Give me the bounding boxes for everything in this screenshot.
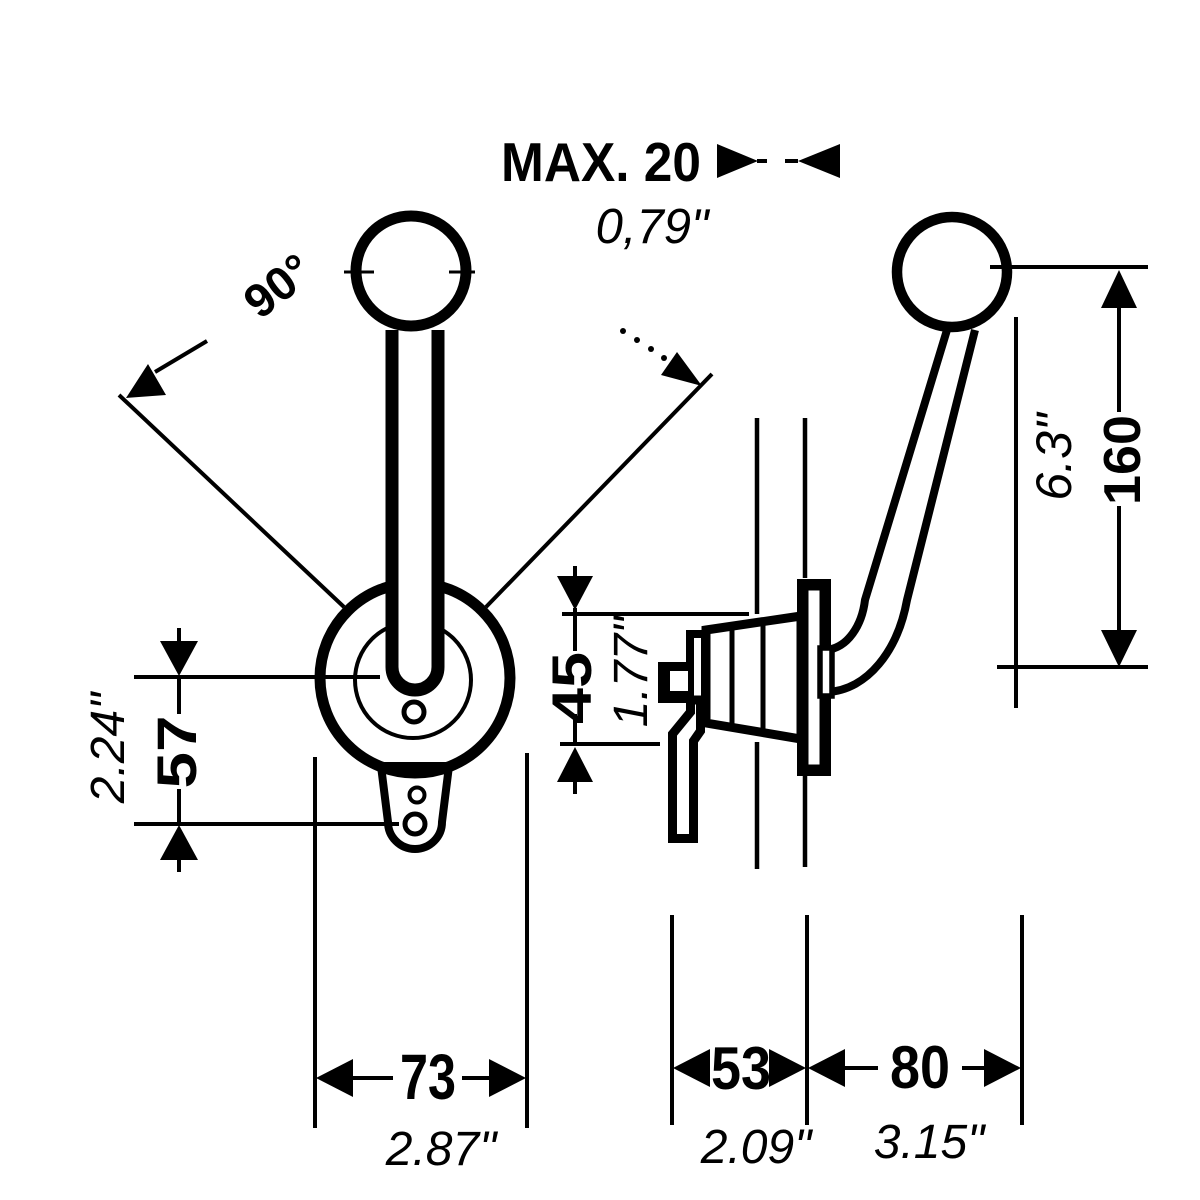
dim45 arrow up tail xyxy=(573,781,577,794)
dim160 line lower xyxy=(1117,506,1121,632)
dim45 arrow down xyxy=(557,576,593,610)
svg-text:2.87": 2.87" xyxy=(385,1123,498,1176)
max20 arrow right xyxy=(717,144,758,178)
svg-text:3.15": 3.15" xyxy=(874,1116,986,1169)
dotted leader arrow xyxy=(661,352,702,386)
swing line left 45deg xyxy=(119,395,344,607)
side lever inner edge xyxy=(826,330,947,650)
dim45 line segment lower xyxy=(573,714,577,744)
panel line right lower xyxy=(803,776,808,867)
dim45 arrow up xyxy=(557,747,593,782)
svg-text:53: 53 xyxy=(711,1035,771,1102)
flange plate xyxy=(803,585,826,771)
dim160 bottom ref line xyxy=(997,665,1148,669)
dim80 ext line right xyxy=(1020,915,1024,1125)
dim53 arrow right xyxy=(769,1049,806,1087)
dim160 top ref line xyxy=(990,265,1148,269)
dim45 line segment upper xyxy=(573,616,577,651)
dim45 arrow down tail xyxy=(573,566,577,578)
dim45 top line xyxy=(562,612,749,616)
dim57 line segment lower xyxy=(177,789,181,824)
tab hole upper xyxy=(410,788,425,803)
max20 arrow left xyxy=(798,144,840,178)
dim53 ext line mid xyxy=(805,915,809,1125)
dim57 arrow down xyxy=(160,641,198,676)
svg-text:1.77": 1.77" xyxy=(605,615,658,727)
max20 arrow right tail xyxy=(757,159,767,163)
dotted leader xyxy=(620,328,626,334)
body divider 2 xyxy=(761,620,766,734)
dim73 arrow left xyxy=(316,1059,353,1097)
dim73 line right xyxy=(462,1076,492,1080)
body main section xyxy=(706,616,801,739)
swing line right 45deg xyxy=(486,374,712,607)
dim45 tick top xyxy=(573,608,577,622)
svg-text:45: 45 xyxy=(540,652,603,724)
svg-text:80: 80 xyxy=(890,1034,950,1101)
front base circle outline xyxy=(320,583,510,773)
side lever fill xyxy=(826,330,975,692)
front mounting tab xyxy=(381,766,449,849)
max20 dash xyxy=(785,159,798,163)
front base inner circle xyxy=(355,622,471,738)
dim73 ext line right xyxy=(525,753,529,1128)
dim80 line left xyxy=(843,1066,878,1070)
dim57 bottom line xyxy=(134,822,399,826)
tab hole lower xyxy=(405,814,425,834)
ball tick left xyxy=(344,271,374,274)
dim53 ext line left xyxy=(670,915,674,1125)
dim80 arrow left xyxy=(808,1049,845,1087)
dim160 line upper xyxy=(1117,305,1121,412)
front lever shaft xyxy=(392,330,438,690)
dim57 top line xyxy=(134,675,380,679)
leader line for 90 xyxy=(155,341,207,372)
panel line left lower xyxy=(755,742,760,869)
svg-text:57: 57 xyxy=(145,716,208,789)
dim160 ext line xyxy=(1014,317,1018,708)
dim57 arrow up tail xyxy=(177,859,181,872)
front ball knob xyxy=(356,216,466,326)
svg-text:73: 73 xyxy=(400,1041,456,1113)
dim73 arrow right xyxy=(489,1059,526,1097)
panel line right upper xyxy=(803,418,808,578)
front base circle fill xyxy=(320,583,510,773)
dim57 line segment upper xyxy=(177,677,181,714)
panel line left upper xyxy=(755,418,760,614)
dim57 arrow up xyxy=(160,825,198,860)
dim45 bottom line xyxy=(560,742,660,746)
svg-text:2.24": 2.24" xyxy=(82,691,135,804)
ball tick right xyxy=(449,271,475,274)
hub boss xyxy=(820,648,832,696)
dim73 line left xyxy=(350,1076,393,1080)
leader arrow for 90 xyxy=(126,364,166,398)
front shaft pivot hole xyxy=(404,702,424,722)
dim80 arrow right xyxy=(984,1049,1021,1087)
svg-text:6.3": 6.3" xyxy=(1026,411,1082,501)
side lever outer edge xyxy=(827,330,975,692)
svg-text:2.09": 2.09" xyxy=(700,1121,813,1174)
clamp bracket bar xyxy=(673,700,701,839)
dim160 arrow up xyxy=(1101,270,1137,308)
clamp screw xyxy=(658,662,690,703)
body left step xyxy=(690,634,705,720)
dim53 arrow left xyxy=(673,1049,710,1087)
svg-text:MAX. 20: MAX. 20 xyxy=(501,131,701,193)
dim57 arrow down tail xyxy=(177,628,181,642)
dim73 ext line left xyxy=(313,757,317,1128)
dim80 line right xyxy=(962,1066,986,1070)
dim160 arrow down xyxy=(1101,630,1137,667)
svg-text:0,79": 0,79" xyxy=(596,200,711,254)
svg-text:160: 160 xyxy=(1094,415,1152,505)
body divider 1 xyxy=(730,628,735,727)
side ball knob xyxy=(897,217,1007,327)
